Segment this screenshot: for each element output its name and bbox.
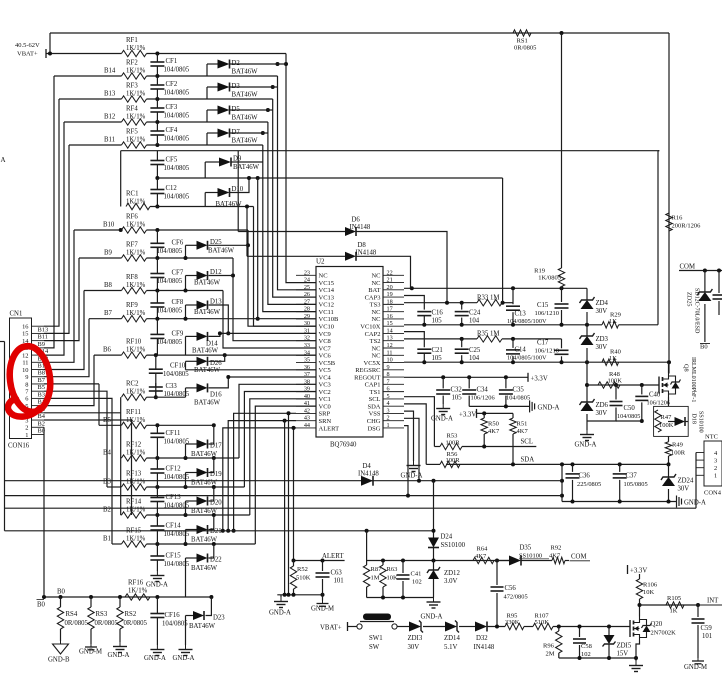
svg-text:D4: D4: [363, 463, 372, 470]
resistor RS4 0R/0805: [57, 597, 88, 629]
svg-text:104/0805: 104/0805: [164, 136, 190, 143]
svg-text:D14: D14: [206, 341, 218, 348]
wire VBAT+ up-jog to top rail: [48, 33, 52, 56]
ground GND-A below ZD12: [421, 598, 443, 621]
resistor RF7 1K/1%: [122, 242, 147, 262]
diode D6 IN4148: [238, 151, 449, 305]
svg-text:RC1: RC1: [126, 191, 138, 198]
svg-text:RF1: RF1: [126, 37, 138, 44]
svg-text:104/0805: 104/0805: [157, 248, 183, 255]
resistor RF10 1K/1%: [122, 339, 147, 359]
svg-text:105: 105: [432, 318, 443, 325]
svg-text:104/0805: 104/0805: [164, 113, 190, 120]
resistor R52 510K: [290, 561, 310, 595]
svg-text:11: 11: [22, 360, 28, 367]
svg-text:RS1: RS1: [517, 38, 528, 45]
wire net CAP2 to C21: [404, 332, 424, 348]
wire net REGOUT +3.3V rail: [404, 375, 528, 379]
wire long rail y=530.8: [5, 529, 434, 533]
wire net B1 dropper: [44, 398, 112, 544]
svg-text:1K/1%: 1K/1%: [126, 114, 146, 121]
diode D26 BAT46W: [186, 355, 225, 374]
svg-text:1K/1%: 1K/1%: [126, 282, 146, 289]
diode D3 BAT46W: [207, 83, 278, 100]
diode D23 BAT46W: [186, 597, 226, 645]
svg-text:GND-A: GND-A: [684, 500, 706, 507]
wire R47/D18 box: [654, 406, 689, 436]
svg-text:C33: C33: [166, 383, 178, 390]
svg-text:VC6: VC6: [319, 353, 332, 360]
svg-text:VC8: VC8: [319, 338, 331, 345]
connector CN1 CON16: [8, 311, 49, 450]
svg-text:105/0805: 105/0805: [624, 481, 648, 488]
wire net B11 riser: [44, 145, 69, 333]
svg-text:C15: C15: [537, 302, 549, 309]
ground GND-M below C59: [684, 658, 707, 671]
capacitor C56 472/0805: [491, 561, 528, 627]
svg-text:SW1: SW1: [369, 635, 383, 642]
svg-text:IN4148: IN4148: [350, 224, 371, 231]
svg-text:30V: 30V: [596, 344, 608, 351]
ground GND-A below Q20: [629, 661, 643, 672]
svg-text:NTC: NTC: [705, 434, 718, 441]
wire RF12 output to band vertical: [147, 456, 240, 460]
svg-text:104: 104: [469, 318, 480, 325]
svg-text:0R/0805: 0R/0805: [124, 620, 148, 627]
svg-text:A: A: [1, 156, 6, 164]
wire net B0 dropper: [43, 427, 45, 597]
svg-text:B0: B0: [700, 344, 708, 351]
svg-text:100K: 100K: [659, 422, 674, 429]
svg-text:SRP: SRP: [319, 411, 331, 418]
wire RF2 output to band vertical: [147, 74, 278, 78]
svg-text:NC: NC: [371, 273, 380, 280]
svg-text:100R: 100R: [671, 450, 686, 457]
capacitor C24 104: [455, 303, 481, 325]
resistor RF13 1K/1%: [122, 471, 147, 491]
svg-text:CN1: CN1: [10, 311, 23, 318]
capacitor CF13 104/0805: [150, 487, 189, 515]
svg-text:GND-A: GND-A: [146, 582, 168, 589]
svg-text:SCL: SCL: [521, 439, 533, 446]
diode D17 BAT46W: [186, 425, 223, 458]
svg-text:2M: 2M: [546, 651, 555, 658]
ground GND-A below CF15: [146, 571, 168, 589]
svg-text:104/0805: 104/0805: [163, 371, 189, 378]
wire left edge stub: [0, 341, 5, 343]
wire row B1: [103, 536, 122, 545]
svg-text:RF5: RF5: [126, 129, 138, 136]
ground GND-A below ZD6: [575, 430, 597, 449]
diode D4 IN4148: [358, 463, 379, 486]
wire IC pin36 row: [186, 369, 317, 371]
wire net TS2 to R35: [404, 337, 477, 341]
svg-text:SRN: SRN: [319, 418, 332, 425]
svg-text:30V: 30V: [596, 410, 608, 417]
svg-text:B11: B11: [104, 137, 115, 144]
svg-text:1K/1%: 1K/1%: [126, 68, 146, 75]
svg-text:2: 2: [714, 465, 717, 472]
svg-text:C63: C63: [331, 570, 343, 577]
svg-text:GND-M: GND-M: [311, 606, 334, 613]
svg-text:NC: NC: [371, 309, 380, 316]
svg-text:GND-A: GND-A: [421, 614, 443, 621]
svg-text:1K/1%: 1K/1%: [126, 507, 146, 514]
svg-text:C37: C37: [626, 473, 638, 480]
svg-text:VC3: VC3: [319, 382, 331, 389]
svg-text:C16: C16: [432, 310, 444, 317]
svg-text:1K/1%: 1K/1%: [126, 45, 146, 52]
resistor R40 1K: [602, 349, 621, 366]
wire net gate R48 row: [587, 383, 659, 387]
svg-text:C21: C21: [432, 347, 443, 354]
wire long rail y=495.6: [5, 494, 563, 498]
wire box to R49: [668, 436, 670, 441]
svg-text:1K/0805: 1K/0805: [538, 275, 561, 282]
svg-text:CF2: CF2: [166, 81, 178, 88]
svg-text:C24: C24: [469, 310, 481, 317]
svg-text:VSS: VSS: [369, 411, 381, 418]
resistor RF14 1K/1%: [122, 499, 147, 519]
ground GND-A flag mid: [530, 400, 560, 412]
svg-text:CAP3: CAP3: [365, 294, 381, 301]
svg-text:D3: D3: [232, 83, 241, 90]
wire net DSG from pin1: [404, 426, 408, 496]
svg-text:D2: D2: [232, 60, 241, 67]
svg-text:B12: B12: [104, 114, 116, 121]
svg-text:C50: C50: [624, 405, 636, 412]
svg-text:VC15: VC15: [319, 280, 335, 287]
wire NTC feeds vertical: [695, 453, 697, 509]
transistor Q8 IRLML0100PbF: [659, 357, 696, 402]
wire row B13: [59, 91, 122, 100]
svg-text:B7: B7: [38, 377, 46, 384]
resistor R51 4K7: [510, 413, 529, 464]
svg-text:B6: B6: [103, 347, 112, 354]
wire row B6 into IC pin34: [94, 347, 122, 356]
resistor R33 1M: [477, 295, 502, 306]
wire R49 to rail C36: [667, 456, 671, 466]
diode D13 BAT46W: [186, 299, 231, 336]
svg-text:104/0805: 104/0805: [157, 339, 183, 346]
diode D21 BAT46W: [186, 515, 222, 544]
svg-text:200R/1206: 200R/1206: [672, 223, 702, 230]
wire net ALERT from pin44: [221, 428, 296, 533]
svg-text:1K: 1K: [670, 608, 678, 615]
resistor R63 10K: [380, 561, 398, 598]
svg-text:106/1210: 106/1210: [535, 347, 560, 354]
wire net INT row: [640, 603, 701, 607]
capacitor CF15 104/0805: [150, 544, 189, 571]
capacitor CF6 104/0805: [150, 230, 183, 258]
wire box left vertical x=120.7: [120, 151, 122, 207]
node COM output: [565, 554, 590, 561]
node COM top right: [680, 264, 696, 271]
wire net B8 vertical to pin33: [223, 291, 316, 349]
resistor R105 1K: [666, 595, 684, 615]
zener ZD15 15V: [603, 627, 632, 659]
wire vertical x=562 long-line join: [560, 464, 564, 501]
wire net VC10X rail y=324.8: [404, 323, 602, 327]
wire top rail y=33 to right edge vertical: [50, 32, 669, 34]
wire RF1 output to band vertical: [147, 52, 287, 56]
capacitor C36 225/0805: [566, 464, 602, 501]
svg-text:101: 101: [702, 633, 712, 640]
svg-text:1K/1%: 1K/1%: [126, 347, 146, 354]
svg-text:RF10: RF10: [126, 339, 142, 346]
svg-text:100R: 100R: [446, 439, 461, 446]
svg-text:ZD4: ZD4: [596, 300, 609, 307]
resistor RF4 1K/1%: [122, 106, 147, 126]
ground GND-B: [48, 629, 70, 664]
svg-text:C34: C34: [477, 387, 489, 394]
svg-text:R63: R63: [387, 566, 398, 573]
svg-text:16: 16: [22, 324, 28, 331]
zener ZD6 30V: [580, 399, 609, 417]
diode D24 SS10100: [428, 534, 466, 561]
svg-text:GND-A: GND-A: [108, 652, 130, 659]
svg-text:B10: B10: [103, 222, 115, 229]
svg-text:BQ76940: BQ76940: [330, 442, 357, 449]
svg-text:1M: 1M: [371, 575, 380, 582]
wire RF14 output to band vertical: [147, 513, 250, 517]
svg-text:D13: D13: [210, 299, 222, 306]
svg-text:CF1: CF1: [166, 58, 178, 65]
svg-text:B4: B4: [38, 413, 46, 420]
svg-text:B3: B3: [38, 391, 45, 398]
svg-text:BAT46W: BAT46W: [194, 280, 221, 287]
svg-text:RF2: RF2: [126, 60, 138, 67]
resistor R19 1K/0805: [534, 268, 565, 289]
svg-text:1K/1%: 1K/1%: [126, 91, 146, 98]
svg-text:VC14: VC14: [319, 287, 335, 294]
resistor R48 100K: [598, 371, 622, 388]
svg-text:CF3: CF3: [166, 104, 178, 111]
wire VBAT+ to RF1: [46, 53, 122, 55]
svg-text:BAT46W: BAT46W: [232, 138, 259, 145]
svg-text:VC0: VC0: [319, 403, 331, 410]
resistor R106 10K: [636, 574, 658, 605]
switch SW1: [357, 614, 397, 652]
ground GND-A below D23: [173, 645, 195, 662]
svg-text:ZD24: ZD24: [678, 478, 694, 485]
svg-text:SD12C-70L0/ESD: SD12C-70L0/ESD: [694, 288, 700, 334]
resistor R16 200R/1206: [666, 213, 701, 231]
capacitor CF3 104/0805: [150, 100, 189, 123]
svg-text:C58: C58: [581, 643, 592, 650]
wire row B5: [99, 384, 122, 425]
zener ZD12 3.0V: [427, 561, 460, 598]
svg-text:VC5B: VC5B: [319, 360, 336, 367]
wire net C36 rail y=464.4: [446, 462, 669, 466]
svg-text:CHG: CHG: [367, 418, 381, 425]
svg-text:SS10100: SS10100: [441, 542, 466, 549]
svg-text:VC10X: VC10X: [360, 323, 381, 330]
wire RC1 row to band vertical: [150, 206, 254, 208]
wire RF10 output to IC pin34: [147, 353, 317, 357]
svg-text:VC11: VC11: [319, 309, 334, 316]
svg-text:RF9: RF9: [126, 302, 138, 309]
svg-text:SW: SW: [369, 644, 380, 651]
svg-text:12: 12: [22, 352, 28, 359]
svg-text:+3.3V: +3.3V: [531, 375, 548, 382]
svg-text:D23: D23: [213, 615, 225, 622]
wire net B12 vertical to IC pin: [266, 108, 316, 304]
svg-text:CON4: CON4: [704, 490, 722, 497]
svg-text:472/0805: 472/0805: [504, 594, 528, 601]
wire net SRP from pin42: [232, 413, 296, 533]
svg-text:VC10B: VC10B: [319, 316, 340, 323]
svg-text:B0: B0: [57, 589, 66, 596]
wire net B7 riser: [44, 319, 89, 377]
svg-text:4K7: 4K7: [517, 428, 529, 435]
zener ZD3 30V: [580, 333, 609, 351]
wire R29 to right vertical: [619, 324, 658, 326]
wire right vertical x=658 from rail150: [658, 151, 659, 325]
resistor RF3 1K/1%: [122, 83, 147, 103]
svg-text:CF6: CF6: [172, 239, 184, 246]
svg-text:BAT46W: BAT46W: [208, 247, 235, 254]
svg-text:U2: U2: [316, 258, 325, 266]
wire R95 to R107: [524, 626, 533, 628]
resistor RS2 0R/0805: [117, 597, 148, 629]
svg-text:1K: 1K: [609, 355, 617, 362]
capacitor CF14 104/0805: [150, 515, 189, 544]
svg-text:106/1210: 106/1210: [535, 310, 560, 317]
svg-text:RF4: RF4: [126, 106, 138, 113]
svg-text:C12: C12: [166, 185, 178, 192]
wire branch to R87: [366, 531, 368, 561]
svg-text:1K/1%: 1K/1%: [126, 389, 146, 396]
wire R107 to Q20 gate: [553, 625, 630, 629]
svg-text:NC: NC: [319, 273, 328, 280]
wire ZD12 ground rail: [367, 596, 434, 600]
resistor R53 100R: [434, 433, 462, 450]
capacitor C14 104/0805/100V: [506, 339, 547, 362]
node A left edge: [1, 156, 6, 164]
svg-text:102: 102: [412, 579, 422, 586]
wire R106 to Q20 drain / R105: [638, 603, 642, 617]
svg-text:510K: 510K: [296, 575, 311, 582]
wire ZD13 to ZD14: [423, 626, 445, 628]
svg-text:C59: C59: [701, 625, 713, 632]
svg-text:510K: 510K: [535, 619, 550, 626]
svg-text:104/0805: 104/0805: [164, 165, 190, 172]
svg-text:CF9: CF9: [172, 330, 184, 337]
svg-text:1: 1: [714, 473, 717, 480]
svg-text:B14: B14: [104, 68, 116, 75]
svg-text:C14: C14: [515, 347, 527, 354]
svg-text:R50: R50: [488, 421, 499, 428]
svg-text:D18: D18: [691, 414, 697, 424]
svg-text:R35 1M: R35 1M: [477, 331, 499, 338]
wire row B4: [103, 450, 122, 459]
wire RF5 output to band vertical: [147, 143, 263, 147]
wire D24 vertical: [432, 481, 436, 538]
resistor RF1 1K/1%: [122, 37, 147, 57]
svg-text:VC10: VC10: [319, 323, 335, 330]
svg-text:BAT46W: BAT46W: [189, 623, 216, 630]
resistor RF16 1K/1%: [125, 580, 150, 601]
capacitor CF2 104/0805: [150, 77, 189, 100]
svg-text:B1: B1: [103, 536, 111, 543]
resistor RF6 1K/1%: [122, 214, 147, 234]
svg-text:C35: C35: [513, 387, 525, 394]
wire row B8: [84, 282, 122, 291]
svg-text:R47: R47: [661, 414, 673, 421]
svg-text:0R/0805: 0R/0805: [65, 620, 89, 627]
wire net SRN sense drop: [284, 421, 286, 595]
svg-text:R19: R19: [534, 268, 545, 275]
svg-text:104/0805: 104/0805: [157, 308, 183, 315]
svg-text:TS3: TS3: [370, 302, 381, 309]
power +3.3V flag: [528, 373, 548, 383]
wire row B9: [79, 250, 122, 259]
svg-text:4K7: 4K7: [549, 553, 561, 560]
wire net B9 riser: [44, 258, 79, 341]
wire RC2 row left vertical x=120.7: [120, 397, 122, 515]
wire net B11 vertical to IC pin: [261, 131, 316, 312]
capacitor C12 104/0805: [150, 178, 189, 209]
wire analog ground rail below R52: [277, 593, 324, 597]
svg-text:10K: 10K: [387, 575, 399, 582]
wire net B13 vertical to IC pin: [271, 85, 316, 297]
svg-text:ZDI5: ZDI5: [617, 643, 632, 650]
svg-text:B8: B8: [38, 370, 45, 377]
wire RF9 output to IC pin29: [147, 317, 317, 321]
svg-text:1K/1%: 1K/1%: [126, 479, 146, 486]
wire +3.3V to pullups: [477, 411, 514, 415]
wire RF7 output to band vertical: [147, 256, 234, 260]
svg-text:BAT46W: BAT46W: [191, 451, 218, 458]
capacitor C32 105: [436, 377, 462, 404]
wire net VSS from pin3 to ground: [404, 411, 414, 461]
capacitor CF1 104/0805: [150, 54, 189, 77]
capacitor C21 105: [417, 347, 443, 362]
wire row B12: [64, 114, 122, 123]
svg-text:GND-M: GND-M: [79, 649, 102, 656]
svg-text:ZD14: ZD14: [444, 635, 460, 642]
wire net B3 vertical to IC pin: [244, 392, 316, 488]
wire RC2 output: [147, 396, 186, 398]
svg-text:D9: D9: [233, 156, 242, 163]
wire row B0 bottom rail: [42, 589, 213, 600]
wire net SCL from pin5: [404, 397, 434, 447]
svg-text:8: 8: [25, 381, 28, 388]
svg-text:B7: B7: [104, 310, 113, 317]
svg-text:D24: D24: [441, 534, 453, 541]
svg-text:B13: B13: [38, 326, 49, 333]
svg-text:DSG: DSG: [367, 425, 380, 432]
svg-text:6: 6: [25, 396, 28, 403]
svg-text:D6: D6: [352, 217, 361, 224]
wire row B3: [103, 479, 122, 488]
diode D20 BAT46W: [186, 487, 223, 515]
resistor RF2 1K/1%: [122, 60, 147, 80]
svg-text:D7: D7: [232, 129, 241, 136]
svg-text:40.5-62V: 40.5-62V: [15, 42, 40, 49]
svg-text:CF5: CF5: [166, 157, 178, 164]
svg-text:B9: B9: [104, 250, 113, 257]
svg-text:BAT46W: BAT46W: [232, 115, 259, 122]
svg-text:R51: R51: [517, 421, 528, 428]
wire net B6 riser: [44, 355, 94, 406]
svg-text:100R: 100R: [446, 457, 461, 464]
wire R33 output to C13 top: [501, 301, 513, 305]
capacitor CF8 104/0805: [150, 291, 183, 319]
wire RF3 output to band vertical: [147, 97, 273, 101]
capacitor C63 101: [316, 561, 344, 595]
